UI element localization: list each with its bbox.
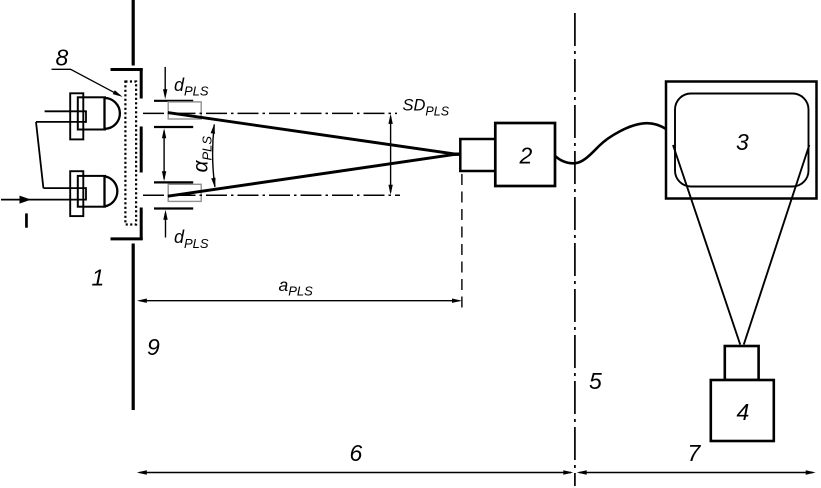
svg-text:7: 7 (688, 440, 702, 466)
dimension arrow between slits (163, 131, 165, 179)
LED D2 flange (70, 171, 83, 216)
LED D1 pin end cap (85, 110, 87, 122)
LED D1 pin upper (45, 110, 86, 112)
dimension 6 (140, 472, 572, 474)
camera lens barrel (box 2 front) (460, 139, 495, 171)
label I (25, 213, 28, 227)
dimension SD_PLS arrow (390, 117, 392, 193)
diffuser strip 8 (dotted rectangle) (125, 82, 136, 225)
holder right vertical segment A (140, 68, 143, 99)
monitor screen (rounded) (675, 94, 809, 187)
holder right vertical segment B (140, 127, 143, 173)
camera body box 2 (495, 123, 555, 186)
holder bracket top horizontal (111, 68, 143, 71)
arrowhead of current input (20, 196, 32, 204)
svg-text:2: 2 (519, 142, 533, 168)
beam upper (168, 113, 456, 155)
beam apex stub (452, 152, 462, 155)
dimension 7 (579, 472, 813, 474)
svg-text:3: 3 (736, 129, 749, 155)
svg-text:8: 8 (56, 44, 69, 70)
wire connecting LED D1 to LED D2 (36, 122, 43, 188)
current input line I (1, 199, 86, 201)
cable from box 2 to monitor 3 (555, 123, 667, 163)
monitor outer box 3 (666, 82, 817, 199)
optical axis top (dash-dot) (143, 112, 397, 114)
dashed projection line below box 2 (461, 174, 463, 308)
svg-text:9: 9 (147, 334, 160, 360)
LED D1 body (78, 97, 105, 129)
svg-text:5: 5 (589, 368, 602, 394)
leader line for 8 (52, 69, 116, 93)
wall top segment (item 1 plate) (132, 0, 135, 66)
LED D1 pin lower (36, 121, 86, 123)
svg-text:4: 4 (737, 399, 750, 425)
holder bracket bottom horizontal (111, 237, 143, 240)
sight line left from screen to camera 4 (673, 145, 740, 345)
optical axis bottom (dash-dot) (143, 194, 400, 196)
gray aperture box bottom (168, 184, 201, 201)
wall bottom segment (132, 244, 135, 411)
slit S2 lower edge (154, 207, 193, 209)
slit S1 lower edge (154, 126, 193, 128)
separation dash-dot line 5 (574, 13, 576, 486)
slit S2 upper edge (154, 181, 193, 183)
sight line right from screen to camera 4 (744, 145, 810, 345)
LED D2 dome (105, 176, 118, 206)
LED D1 flange (70, 93, 83, 139)
alpha angle arc (213, 125, 215, 187)
gray aperture box top (168, 102, 201, 119)
camera 4 lens (725, 346, 759, 380)
LED D2 pin upper (43, 187, 86, 189)
leader arrowhead for 8 (113, 90, 124, 99)
camera 4 body (711, 380, 774, 441)
LED D1 dome (105, 98, 120, 129)
svg-text:6: 6 (350, 440, 363, 466)
svg-text:1: 1 (92, 265, 105, 291)
holder right vertical segment C (140, 208, 143, 241)
LED D2 body (78, 176, 105, 207)
dimension a_PLS (140, 300, 460, 302)
LED D2 pin end cap (85, 187, 87, 200)
beam lower (168, 154, 456, 196)
slit S1 upper edge (154, 100, 193, 102)
dimension d_PLS bottom arrow (165, 213, 167, 238)
dimension d_PLS top arrow (164, 67, 166, 96)
